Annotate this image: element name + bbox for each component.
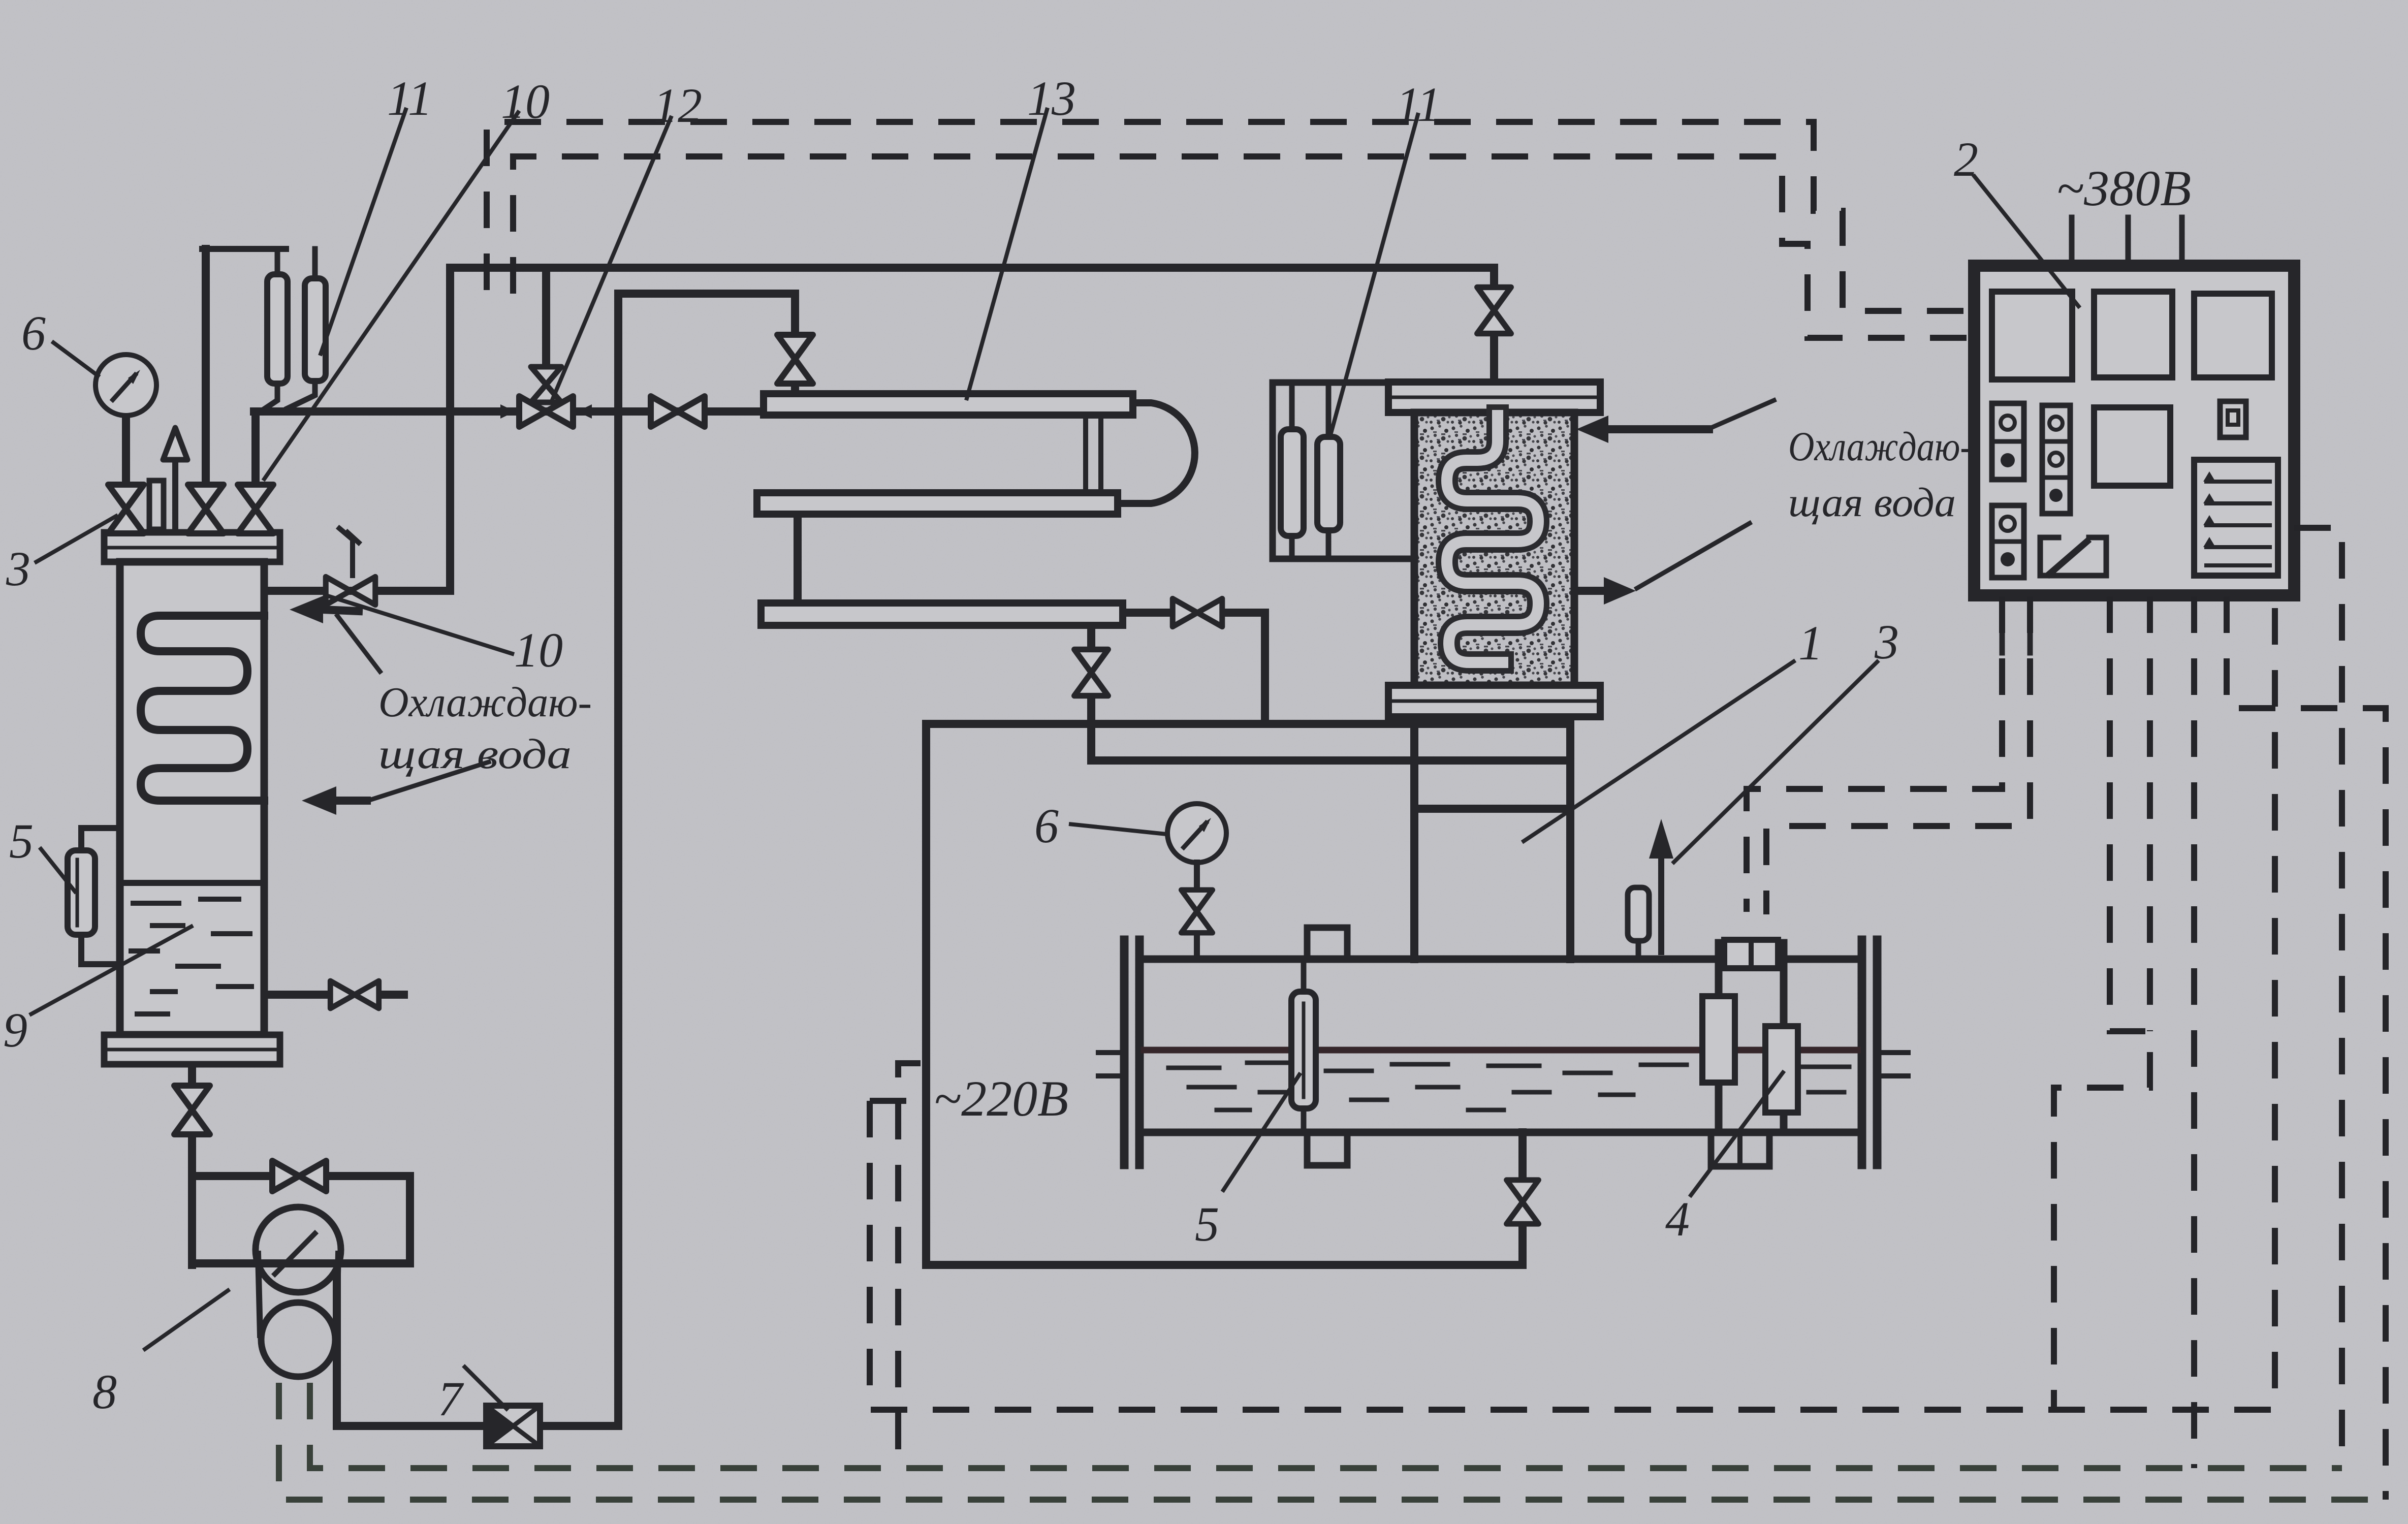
panel indicator lamp [2220, 401, 2246, 437]
control cable: panel stub wire [2147, 596, 2153, 1031]
wire: tube3 outlet to valve [1123, 609, 1169, 617]
svg-text:Охлаждаю-: Охлаждаю- [1788, 423, 1972, 469]
condenser-receiver 9: shell [120, 562, 264, 1035]
flow indicator 3 (rotameter) [1628, 887, 1649, 941]
panel button block C [1992, 505, 2024, 578]
callout line for 9 [29, 926, 193, 1015]
control cable: panel to tank heater wire 1 [1747, 596, 2002, 912]
wire: compressor discharge drop [333, 1278, 341, 1426]
wire: condenser outlet line to throttle valve 10 [264, 587, 450, 595]
wire: compressor bypass upper line [192, 1172, 271, 1180]
callout line for 11 (vessel sight glass) [1330, 113, 1418, 437]
wire: main suction header B to heat exchanger 13 [254, 407, 764, 416]
heat exchanger 13 tube 3 [761, 603, 1123, 625]
evaporator vessel 1 top flange [1388, 382, 1600, 412]
wire: line B to vessel lower chamber [1091, 756, 1570, 765]
valve above evaporator vessel [1477, 287, 1511, 333]
wire: discharge riser to heat exchanger 13 [618, 294, 795, 1426]
wire: line A from corner to vessel lower chamber [926, 720, 1570, 728]
water hatch dashes [1168, 1063, 1849, 1110]
callout line for 8 [143, 1289, 230, 1350]
svg-text:2: 2 [1954, 132, 1978, 186]
wire: discharge line through filter 7 [337, 1422, 486, 1430]
solid wire stubs below panel [2000, 595, 2005, 653]
heat exchanger 13 tube 1 [764, 394, 1133, 415]
cooling water in arrow (vessel top) [1576, 416, 1608, 443]
wire: valve 3 riser to main suction header [251, 411, 260, 487]
svg-text:щая вода: щая вода [378, 731, 572, 778]
condenser liquid level [123, 880, 261, 886]
svg-text:4: 4 [1665, 1192, 1690, 1246]
220V stub wire b [870, 1098, 917, 1104]
cooling water out arrow (condenser top) [290, 596, 323, 623]
svg-text:5: 5 [9, 814, 34, 868]
control cable: panel wire to middle bus [2191, 596, 2197, 1468]
callout line for 1 [1522, 660, 1795, 842]
panel middle window [2094, 407, 2170, 486]
panel window 3 [2194, 294, 2272, 377]
condenser-receiver 9: bottom flange [104, 1035, 280, 1064]
380V supply leads [2069, 217, 2075, 266]
svg-text:~220В: ~220В [934, 1070, 1068, 1127]
sight glass 11 (vessel) bracket [1273, 383, 1388, 559]
heat exchanger U-bend [1118, 403, 1195, 503]
panel button block B [2042, 405, 2070, 514]
control cable: upper bus 2 to panel [513, 156, 1974, 338]
panel button block A [1992, 403, 2024, 480]
heat exchanger 13 tube 2 [757, 493, 1118, 514]
condenser liquid hatch dashes [131, 899, 251, 1014]
tank drain valve [1507, 1180, 1539, 1224]
evaporator coil (outline) [1447, 416, 1538, 662]
U-bend inner tube [1086, 415, 1101, 493]
svg-text:12: 12 [653, 78, 702, 133]
valve on tube 3 outlet [1173, 598, 1222, 626]
wire: pointer from water label to lower arrow [365, 762, 489, 802]
wire: long left downcomer of water loop [922, 724, 930, 1265]
svg-text:6: 6 [1034, 799, 1059, 853]
svg-text:1: 1 [1798, 616, 1823, 670]
wire: cooling water inlet line of vessel [1609, 425, 1709, 433]
wire: evaporator feed stem below valve [1490, 330, 1498, 384]
control cable: panel right side to middle bus [2294, 528, 2342, 1468]
water tank right flange [1858, 940, 1866, 1165]
callout line for 7 [463, 1366, 508, 1410]
wire: vessel lower chamber left wall [1410, 720, 1418, 959]
wire: branch of three-way valve 12 up to liquid header [542, 268, 550, 369]
valve under tank gauge [1181, 890, 1213, 933]
cooling water out arrow (vessel bottom) [1604, 577, 1636, 605]
callout line for 3 (condenser valves) [35, 515, 118, 563]
wire: tube2-tube3 left connector [794, 514, 802, 603]
sight glass 11 bottom drop to header [262, 381, 315, 410]
wire: pointer from vessel water label to top arrow [1710, 400, 1774, 428]
control panel 2 cabinet [1974, 266, 2294, 595]
callout line for 10 (top) [263, 111, 519, 481]
vent arrow [163, 428, 187, 460]
wire: vent riser on condenser top [172, 458, 178, 532]
sight glass 5 (condenser) body [68, 850, 95, 935]
pressure gauge 6 (tank) [1167, 804, 1226, 863]
evaporator vessel bottom flange [1388, 685, 1600, 717]
control cable: lower bus 1 [870, 596, 2275, 1410]
condenser cooling coil [141, 616, 264, 801]
level glass 5 (tank) top clamp [1307, 928, 1347, 959]
vent arrow at vessel outlet [1658, 858, 1664, 952]
callout line for 10 (throttle) [326, 595, 514, 654]
wire: bottom water loop line [926, 1261, 1523, 1269]
220V stub wire a [898, 1063, 921, 1468]
heater 4 bottom bracket [1711, 1132, 1769, 1166]
sight glass 11 tube 2 [312, 249, 318, 278]
wire: vessel lower chamber right wall [1566, 720, 1574, 959]
shutoff valve on header before heat exchanger [651, 396, 705, 427]
callout line for 2 [1973, 175, 2080, 308]
wire: pointer from vessel water label to bottom arrow [1637, 523, 1750, 588]
heater 4 right post [1780, 943, 1788, 1132]
svg-text:7: 7 [438, 1372, 464, 1426]
wire: stem valve to tube 1 of heat exchanger [791, 387, 799, 395]
three-way solenoid valve 12 on header [519, 396, 573, 427]
svg-text:9: 9 [3, 1003, 27, 1057]
level glass 5 (tank) body [1301, 959, 1307, 994]
wire: long liquid header to evaporator vessel [450, 268, 1494, 291]
callout line for 5 (condenser glass) [40, 847, 76, 893]
wire: gauge 6 stem on condenser top [122, 416, 130, 487]
bypass valve above compressor [272, 1161, 326, 1191]
callout line for 6 (tank gauge) [1069, 824, 1166, 834]
condenser drain valve [330, 981, 378, 1008]
valve on tube 3 bottom tap [1074, 649, 1108, 695]
callout line for 6 (condenser gauge) [52, 341, 100, 377]
callout line for 12 [551, 116, 672, 402]
level glass 5 (tank) bottom clamp [1307, 1132, 1347, 1165]
heater 4 element 2 [1765, 1026, 1798, 1113]
sight glass 5 (condenser) piping [81, 828, 120, 850]
compressor crank needle [275, 1233, 315, 1274]
control cable: panel wire to lowest bus via right loop [2227, 596, 2386, 1500]
valve on sight-glass riser [188, 485, 224, 533]
compressor 8 upper cylinder [256, 1207, 341, 1292]
svg-text:6: 6 [21, 306, 46, 360]
wire: sight-glass 11 support riser [202, 249, 210, 487]
wire: cooling water outlet line of vessel [1574, 587, 1604, 595]
svg-text:Охлаждаю-: Охлаждаю- [378, 679, 592, 726]
sight glass 11 (vessel) tube 2 [1326, 383, 1332, 437]
panel window 2 [2094, 292, 2172, 377]
wire: riser from throttle line up to liquid header [446, 268, 454, 591]
wire: sight-glass 11 top bracket bar [202, 246, 286, 252]
condenser-receiver 9: top flange [104, 532, 280, 562]
valve below condenser on suction drop [174, 1086, 210, 1134]
water tank shell top [1142, 956, 1858, 963]
wire: condenser liquid drain line [264, 991, 329, 999]
svg-text:3: 3 [6, 542, 30, 596]
throttle valve 10 [326, 577, 375, 605]
heater 4 left post [1715, 943, 1723, 1132]
stub connections outside flanges [1098, 1053, 1908, 1076]
valve on suction header riser [238, 485, 273, 533]
svg-text:10: 10 [514, 623, 563, 677]
callout line for 4 [1690, 1071, 1784, 1197]
wire: cooling water upper stub [322, 610, 359, 611]
control cable: panel zigzag wire to lower bus [2054, 596, 2150, 1410]
valve on gauge stem [108, 485, 144, 533]
callout line for 13 [966, 108, 1048, 400]
svg-text:5: 5 [1195, 1197, 1219, 1251]
svg-text:3: 3 [1874, 615, 1899, 669]
wire: cooling water lower stub [335, 797, 367, 805]
svg-text:13: 13 [1027, 71, 1076, 125]
control cable: upper bus 1 to panel [487, 122, 1974, 311]
wire: valve to downcomer [1225, 613, 1265, 724]
control cable: lowest bus from motor [279, 1383, 2386, 1500]
evaporator coil (bore) [1447, 416, 1538, 662]
panel terminal block [2194, 460, 2278, 576]
sight glass 11 (condenser level indicator) tube 1 [275, 249, 280, 274]
control cable: panel to tank heater wire 2 [1766, 596, 2030, 914]
filter drier 7 [486, 1406, 540, 1446]
heater 4 top terminal box [1724, 940, 1778, 968]
svg-text:~380В: ~380В [2056, 160, 2191, 216]
svg-text:8: 8 [92, 1364, 117, 1419]
wire: condenser bottom outlet down to compressor suction [188, 1064, 196, 1087]
sight glass 11 (vessel) tube 1 [1289, 383, 1295, 429]
wire: compressor suction line y2487 [192, 1259, 410, 1267]
callout line for 5 (tank glass) [1222, 1073, 1301, 1192]
svg-text:щая вода: щая вода [1788, 479, 1956, 525]
wire: pointer from upper arrow to water label [337, 616, 380, 672]
cooling water in arrow (condenser bottom) [302, 786, 336, 815]
heater 4 element 1 [1702, 996, 1735, 1083]
small fitting beside gauge valve [149, 481, 164, 529]
water tank shell bottom [1142, 1129, 1858, 1136]
compressor casing side links [258, 1254, 260, 1335]
wire: tank drain riser with valve [1518, 1227, 1527, 1265]
svg-text:11: 11 [387, 71, 432, 125]
valve on tube 1 top connection [777, 335, 813, 384]
water level in tank [1144, 1047, 1857, 1054]
wire: tube3 bottom tap stem [1087, 627, 1095, 645]
callout line for 11 (left sight glass) [320, 108, 406, 356]
water tank left flange [1120, 940, 1129, 1165]
panel selector switch [2040, 537, 2058, 576]
control cable: middle bus from motor [310, 1383, 2342, 1468]
svg-text:11: 11 [1396, 77, 1441, 132]
evaporator vessel ice chamber (stippled) [1414, 412, 1574, 685]
svg-text:10: 10 [501, 74, 550, 129]
pressure gauge 6 (condenser) [96, 355, 156, 416]
panel window 1 [1992, 292, 2072, 379]
callout line for 3 (tank heater side) [1672, 660, 1879, 864]
wire: lower chamber internal line [1414, 805, 1570, 813]
compressor 8 motor [261, 1303, 335, 1377]
